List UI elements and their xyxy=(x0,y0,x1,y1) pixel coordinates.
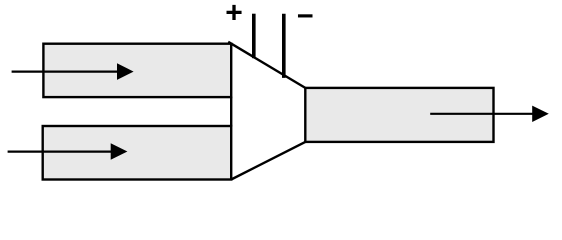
svg-text:+: + xyxy=(225,0,243,30)
svg-text:−: − xyxy=(297,0,314,32)
